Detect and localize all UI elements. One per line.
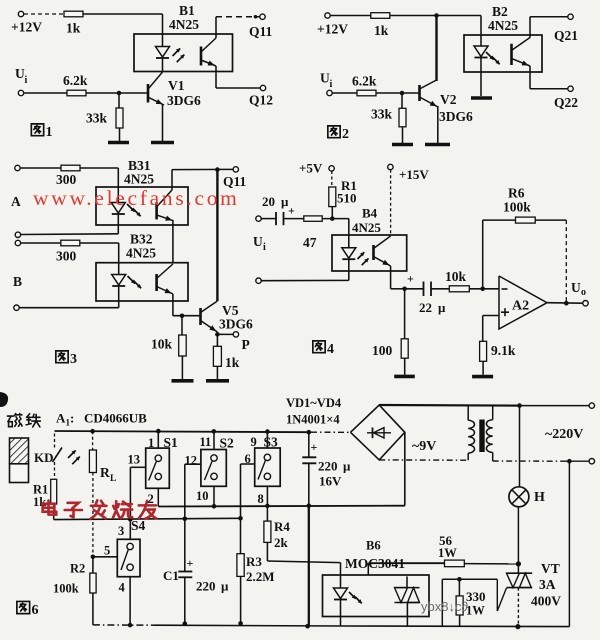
output wire [547, 302, 583, 305]
light arrows B31 [127, 204, 135, 212]
svg-text:1: 1 [148, 436, 154, 450]
node ~220V top terminal [589, 403, 594, 408]
svg-text:12: 12 [185, 454, 198, 468]
wire 47 to junction to LED [322, 218, 349, 220]
wire R4 to MOC LED [266, 542, 268, 561]
phototransistor of B32 [155, 274, 158, 291]
node lamp/VT/56 junction [516, 561, 521, 566]
resistor 56 1W [445, 560, 465, 567]
resistor 1k (fig2) [371, 13, 390, 19]
ground 1k (fig3) [206, 379, 229, 383]
triac VT [517, 564, 519, 573]
svg-text:B1: B1 [179, 3, 195, 18]
wire A- return [21, 233, 119, 236]
node B- terminal [14, 305, 19, 310]
node +12V terminal (fig2) [325, 13, 330, 18]
svg-text:100k: 100k [503, 200, 531, 215]
light arrows B4 [358, 252, 365, 259]
wire 1k to LED anode [83, 13, 163, 15]
svg-text:10k: 10k [151, 337, 173, 352]
svg-text:S4: S4 [131, 518, 146, 533]
wire bridge right down to bus1 [404, 432, 406, 505]
phototransistor of B1 [200, 47, 203, 66]
wire Ui to 6.2k [24, 92, 68, 94]
svg-text:U: U [253, 234, 263, 249]
wire right side down from 220V bottom [568, 461, 570, 626]
svg-text:~9V: ~9V [412, 439, 436, 454]
svg-text:+5V: +5V [299, 161, 323, 176]
svg-text:VT: VT [541, 561, 560, 576]
svg-text:1W: 1W [466, 604, 485, 618]
svg-text:10: 10 [196, 489, 209, 503]
svg-text:1k: 1k [374, 23, 389, 38]
light arrows B32 [128, 276, 136, 284]
wire to Q21 [529, 17, 531, 38]
resistor 6.2k (fig1) [67, 90, 86, 96]
svg-text:V2: V2 [440, 92, 457, 107]
wire [20, 167, 61, 169]
node RL/R2/pin5 junction [91, 555, 96, 560]
feedback wire R6 [482, 220, 484, 289]
svg-text:220: 220 [196, 579, 216, 594]
wire B32 emitter to V5 base [172, 294, 174, 316]
analog switch S2 box [213, 431, 215, 449]
edge blob artifact [0, 392, 8, 407]
ground B2 LED [471, 96, 492, 100]
svg-text:9.1k: 9.1k [491, 343, 516, 358]
svg-text:~220V: ~220V [545, 427, 583, 442]
VT MT1 dashed lead [517, 588, 519, 627]
svg-text:P: P [242, 337, 250, 352]
svg-text:33k: 33k [371, 107, 393, 122]
svg-text:3: 3 [118, 524, 124, 538]
svg-text:S1: S1 [164, 435, 179, 450]
node Q21 terminal [568, 14, 573, 19]
svg-text:i: i [25, 75, 28, 86]
wire to P terminal [216, 332, 218, 346]
svg-text:R3: R3 [246, 554, 262, 569]
svg-text:4N25: 4N25 [124, 172, 154, 187]
node 330 junction [457, 577, 462, 582]
wire 10k to ground [181, 356, 183, 379]
wire dashed from +12V [24, 13, 63, 15]
svg-text:S3: S3 [264, 435, 279, 450]
svg-text:+: + [407, 272, 414, 286]
plus sign [501, 311, 509, 313]
wire feedback right leg dashed [565, 220, 567, 303]
svg-text:R: R [100, 465, 110, 480]
wire V2 emitter to ground [437, 106, 439, 143]
wire 33k to ground [119, 128, 121, 141]
wire to base (fig2) [376, 92, 420, 94]
node B+ terminal [15, 240, 20, 245]
svg-text:Q11: Q11 [249, 24, 273, 39]
optocoupler B31 4N25 box [96, 187, 188, 225]
analog switch S1 box [157, 431, 159, 448]
node Ui terminal (fig1) [18, 90, 23, 95]
LED of B2 [474, 46, 488, 57]
wire dashdot rail to bridge [311, 431, 351, 433]
bottom bus right part [341, 625, 570, 628]
bus1 horizontal [158, 505, 404, 508]
thick vertical bus1 to bottom bus [308, 506, 310, 626]
resistor R3 2.2M [240, 518, 242, 553]
node Ui+ terminal (fig4) [256, 216, 261, 221]
transformer secondary winding [467, 405, 469, 420]
resistor R4 2k [264, 521, 271, 542]
wire emitter down to output node [390, 266, 392, 289]
svg-text:2k: 2k [274, 535, 289, 550]
transistor V5 3DG6 [199, 308, 202, 325]
svg-text:R6: R6 [508, 186, 525, 201]
wire top line to 220V terminal [520, 405, 590, 407]
svg-text:4N25: 4N25 [126, 246, 156, 261]
svg-text:Q21: Q21 [554, 28, 578, 43]
svg-text:U: U [571, 280, 581, 295]
svg-text:B: B [13, 274, 22, 289]
optocoupler B1 4N25 box [134, 34, 233, 72]
svg-text:V1: V1 [168, 78, 185, 93]
svg-text:13: 13 [128, 453, 141, 467]
svg-text:ybx8↓c∂: ybx8↓c∂ [421, 599, 468, 614]
node S4/pin13 junction on bus2 [128, 517, 133, 522]
capacitor C1 220u [184, 519, 186, 572]
wire 1k to ground [216, 366, 218, 379]
resistor R1 1k (fig6) [54, 462, 56, 479]
svg-text:+15V: +15V [399, 167, 429, 182]
node +15V terminal [388, 164, 393, 169]
ground 10k (fig3) [172, 379, 194, 383]
svg-text:A: A [11, 194, 21, 209]
light arrows B6 [349, 592, 356, 599]
svg-text:1k: 1k [225, 355, 240, 370]
wire LED cathode to ground (fig2) [480, 72, 482, 96]
svg-text:47: 47 [303, 235, 317, 250]
wire 330 to bottom bus [459, 615, 461, 626]
LED of B4 [342, 248, 356, 259]
resistor 300 (A input) [61, 165, 80, 171]
svg-text::: : [70, 411, 74, 426]
node +12V terminal (fig1) [18, 11, 23, 16]
ground V2 emitter [425, 143, 450, 147]
svg-text:300: 300 [56, 172, 77, 187]
svg-text:330: 330 [466, 589, 486, 604]
svg-text:510: 510 [337, 191, 357, 206]
node A- terminal [15, 232, 20, 237]
svg-text:i: i [263, 242, 266, 253]
node A+ terminal [15, 165, 20, 170]
svg-text:www.elecfans.com: www.elecfans.com [33, 186, 240, 210]
node Ui- terminal [256, 278, 261, 283]
wire V5 collector thick to rail [216, 170, 218, 301]
resistor 1k (fig3) [213, 346, 221, 366]
wire dashed +5V to R1 [331, 171, 333, 187]
svg-text:9: 9 [251, 435, 257, 449]
plus input wire [483, 315, 499, 317]
svg-text:B6: B6 [366, 539, 381, 553]
wire B31 emitter to B32 collector [172, 221, 174, 263]
svg-text:8: 8 [258, 492, 264, 506]
wire gate net left leg to bottom bus [441, 579, 443, 625]
analog switch S3 box [266, 432, 268, 448]
svg-text:6.2k: 6.2k [63, 73, 88, 88]
svg-text:6: 6 [32, 603, 39, 618]
MOC triac top lead [367, 563, 369, 575]
resistor R1 510 [329, 187, 336, 207]
node lamp junction on top line [517, 403, 522, 408]
node ~220V bottom terminal [589, 459, 594, 464]
wire 1k to LED anode (fig2) [390, 15, 481, 17]
wire 33k to ground (fig2) [402, 127, 404, 143]
wire R2 to bottom bus [92, 593, 94, 625]
svg-text:3DG6: 3DG6 [219, 317, 253, 332]
node C1/pin12 junction on bus2 [183, 517, 188, 522]
wire primary bottom to 220V terminal [493, 460, 565, 462]
LED of B6 [334, 588, 348, 599]
ground 33k (fig2) [392, 143, 413, 147]
watermark 电子发烧友 [43, 501, 57, 515]
wire emitter to Q12 [215, 66, 217, 88]
wire to B32 LED [80, 242, 119, 244]
svg-text:μ: μ [438, 300, 446, 315]
resistor 330 1W [458, 579, 460, 596]
resistor RL [89, 450, 96, 473]
svg-text:22: 22 [419, 300, 432, 315]
wire [332, 92, 357, 94]
resistor 10k (fig3) [181, 316, 183, 335]
svg-text:KD: KD [34, 450, 54, 465]
svg-text:B32: B32 [130, 232, 153, 247]
op-amp A2 [499, 276, 547, 329]
LED of B31 [111, 203, 125, 214]
capacitor 22u [405, 288, 424, 290]
node emitter junction (fig4) [402, 287, 407, 292]
svg-text:+: + [187, 556, 194, 570]
svg-text:3: 3 [70, 352, 77, 367]
wire B31 collector to Q11 rail [171, 170, 173, 190]
VT gate wire [497, 588, 506, 611]
transformer core [479, 420, 484, 453]
wire bridge top to transformer/lamp line (thick) [379, 404, 519, 407]
node Q11 rail junction [215, 167, 220, 172]
node 220V bottom junction [567, 459, 572, 464]
resistor 9.1k [482, 316, 484, 342]
transistor V2 3DG6 [418, 85, 421, 101]
svg-text:+: + [311, 440, 318, 454]
triac inside MOC [395, 587, 420, 589]
node rail RL junction [90, 429, 95, 434]
svg-text:400V: 400V [531, 594, 561, 609]
svg-text:VD1~VD4: VD1~VD4 [286, 396, 342, 410]
svg-text:10k: 10k [445, 269, 467, 284]
svg-text:B2: B2 [492, 4, 508, 19]
wire R1 to bus2 [53, 504, 55, 520]
optocoupler B2 4N25 box [464, 35, 542, 72]
resistor 300 (B input) [61, 240, 80, 246]
label 磁铁 [7, 414, 22, 427]
svg-text:4N25: 4N25 [169, 17, 199, 32]
wire Ui- to LED cathode [261, 279, 349, 281]
wire dashed RL down to pin5 node [92, 473, 94, 557]
node emitter junction P [215, 332, 220, 337]
svg-text:100: 100 [372, 343, 393, 358]
label 图1 [31, 124, 43, 136]
wire 100 to ground [404, 358, 406, 374]
MOC triac bottom lead [406, 603, 408, 627]
LED of B32 [112, 275, 126, 286]
svg-text:4N25: 4N25 [352, 220, 381, 235]
phototransistor of B2 [510, 44, 513, 65]
svg-text:1: 1 [46, 125, 53, 140]
node P terminal [233, 332, 238, 337]
node inverting input junction [480, 287, 485, 292]
svg-text:1k: 1k [66, 21, 81, 36]
top rail fig6 [55, 431, 312, 432]
wire [21, 242, 61, 244]
resistor R6 100k [516, 217, 536, 223]
svg-text:i: i [330, 79, 333, 90]
svg-text:CD4066UB: CD4066UB [84, 411, 147, 426]
optocoupler B32 4N25 box [96, 263, 188, 301]
wire R1 to junction [331, 207, 333, 219]
svg-text:A2: A2 [512, 299, 529, 314]
bridge rectifier VD1-VD4 [351, 405, 405, 460]
wire V2 collector thick [435, 16, 437, 82]
node Ui terminal (fig2) [327, 90, 332, 95]
wire V1 emitter to ground [162, 104, 164, 141]
svg-text:+12V: +12V [317, 22, 348, 37]
diode symbol inside bridge [367, 432, 391, 434]
node output junction [564, 301, 569, 306]
ground V1 emitter [151, 141, 174, 145]
svg-text:Q12: Q12 [249, 93, 273, 108]
svg-text:o: o [581, 287, 586, 298]
wire MOC to 56 resistor (thick) [368, 562, 444, 564]
svg-text:μ: μ [343, 459, 351, 474]
svg-text:16V: 16V [319, 474, 342, 489]
wire 56 to VT junction [464, 563, 518, 565]
wire dashed +15V to collector [390, 170, 392, 236]
svg-text:3DG6: 3DG6 [439, 109, 473, 124]
transistor V1 3DG6 [147, 84, 150, 103]
svg-text:μ: μ [221, 579, 229, 594]
light arrows KD to RL [68, 450, 76, 458]
ground 9.1k [472, 375, 493, 379]
svg-text:5: 5 [104, 544, 110, 558]
label 图3 [56, 351, 68, 363]
resistor 100 (fig4) [404, 289, 406, 339]
svg-text:100k: 100k [53, 582, 79, 596]
node base junction V5 [180, 314, 185, 319]
svg-text:3A: 3A [539, 577, 556, 592]
node Q11 terminal (fig3) [233, 167, 238, 172]
resistor 6.2k (fig2) [357, 90, 376, 96]
svg-text:+: + [288, 204, 295, 218]
svg-text:H: H [534, 490, 545, 505]
label 图4 [313, 341, 325, 353]
resistor 1k (fig1) [64, 11, 83, 17]
capacitor 20u [275, 212, 277, 225]
svg-text:U: U [15, 66, 25, 81]
node Uo terminal [583, 301, 588, 306]
wire B- return [19, 307, 119, 309]
phototransistor of B31 [155, 202, 158, 219]
node R1/input junction [330, 216, 335, 221]
svg-text:6.2k: 6.2k [352, 74, 377, 89]
resistor 10k (fig4) [431, 288, 449, 290]
label 图2 [328, 126, 340, 138]
svg-text:4N25: 4N25 [488, 18, 518, 33]
node Q22 terminal [568, 86, 573, 91]
light arrows B2 [486, 52, 494, 60]
light arrows B1 [173, 48, 181, 56]
svg-text:1N4001×4: 1N4001×4 [286, 413, 340, 427]
node Q12 terminal (fig1) [260, 85, 265, 90]
svg-text:2.2M: 2.2M [246, 569, 275, 584]
svg-text:B4: B4 [362, 206, 378, 221]
node S4 pin4 junction [128, 623, 133, 628]
wire 6.2k to base [86, 92, 148, 94]
svg-text:20: 20 [262, 194, 275, 209]
optocoupler B4 4N25 box [332, 235, 407, 271]
wire collector to Q11 [215, 17, 217, 38]
svg-text:4: 4 [119, 581, 126, 595]
bus2 horizontal [54, 518, 241, 519]
svg-text:11: 11 [200, 435, 212, 449]
wire [330, 15, 371, 17]
svg-text:Q22: Q22 [554, 95, 578, 110]
resistor 33k (fig1) [118, 93, 120, 108]
svg-text:+12V: +12V [11, 20, 42, 35]
label 图6 [17, 601, 30, 613]
svg-text:S2: S2 [220, 436, 235, 451]
optocoupler B6 MOC3041 box [323, 575, 430, 617]
svg-text:1W: 1W [438, 546, 457, 560]
wire bridge bottom to transformer secondary [379, 459, 468, 461]
gate network wire [442, 578, 497, 580]
ground 33k (fig1) [108, 141, 129, 145]
lamp H [519, 406, 521, 487]
resistor 47 [284, 218, 304, 220]
svg-text:L: L [110, 474, 116, 484]
wire 10k to op-amp [469, 288, 499, 290]
capacitor 220u 16V (psu) [308, 432, 310, 457]
node collector junction (fig2) [434, 13, 439, 18]
svg-text:4: 4 [327, 342, 334, 357]
svg-text:3DG6: 3DG6 [167, 93, 201, 108]
svg-text:2: 2 [148, 492, 154, 506]
wire dashed RL top [92, 431, 94, 450]
node MT1 bottom junction [515, 624, 520, 629]
node base junction (fig2) [400, 91, 405, 96]
wire lamp to VT junction [517, 507, 519, 564]
wire to Q22 [529, 66, 531, 89]
svg-text:R2: R2 [70, 562, 85, 576]
node 220u/rail junction [307, 430, 312, 435]
ground 100 (fig4) [394, 375, 415, 379]
svg-text:C1: C1 [163, 568, 179, 583]
wire 9.1k to ground [482, 361, 484, 374]
node base junction (fig1) [117, 91, 122, 96]
wire to B31 LED [80, 167, 118, 169]
wire [261, 218, 276, 220]
KD sensor symbol [53, 448, 63, 463]
svg-text:R4: R4 [274, 519, 290, 534]
svg-text:2: 2 [342, 127, 349, 142]
bottom bus [93, 624, 155, 626]
minus sign [502, 288, 508, 290]
transformer primary winding [492, 406, 494, 420]
